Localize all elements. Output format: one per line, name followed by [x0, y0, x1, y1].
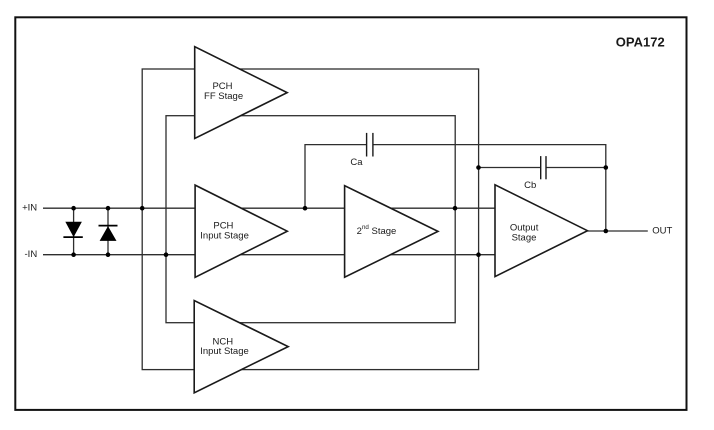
svg-text:Stage: Stage	[512, 232, 537, 243]
op-amp Output Stage	[495, 185, 588, 277]
svg-text:OUT: OUT	[652, 226, 672, 237]
port label -IN	[25, 249, 38, 260]
wire output	[588, 230, 648, 232]
capacitor Cb	[524, 156, 546, 191]
wire -IN rail	[43, 254, 495, 256]
junction dot inner loop/upper rail	[453, 206, 458, 211]
port label OUT	[652, 226, 672, 237]
junction dot +IN/Ca	[303, 206, 308, 211]
diode D2 (pointing up)	[99, 226, 118, 241]
junction dot output node	[604, 229, 609, 234]
junction dot -IN/D1	[71, 252, 76, 257]
svg-text:-IN: -IN	[25, 249, 38, 260]
junction dot +IN/outer loop	[140, 206, 145, 211]
wire diode branch 1	[73, 208, 75, 255]
wire outer loop (+IN net rectangle)	[142, 69, 478, 370]
svg-text:Input Stage: Input Stage	[200, 346, 249, 357]
junction dot -IN/D2	[106, 252, 111, 257]
svg-text:+IN: +IN	[22, 203, 37, 214]
junction dot Cb/outer loop	[476, 165, 481, 170]
diode D1 (pointing down)	[63, 222, 82, 237]
op-amp PCH FF Stage	[195, 47, 288, 139]
capacitor Ca	[350, 133, 372, 168]
wire +IN rail	[43, 207, 495, 209]
junction dot outer loop/lower rail	[476, 252, 481, 257]
svg-text:FF Stage: FF Stage	[204, 91, 243, 102]
svg-text:OPA172: OPA172	[616, 35, 665, 50]
svg-text:Ca: Ca	[350, 157, 363, 168]
wire diode branch 2	[107, 208, 109, 255]
junction dot +IN/D1	[71, 206, 76, 211]
port label +IN	[22, 203, 37, 214]
wire inner loop (-IN net rectangle)	[166, 116, 455, 323]
junction dot -IN/inner loop	[164, 252, 169, 257]
wire Cb left branch	[479, 167, 541, 169]
op-amp 2nd Stage	[345, 186, 438, 278]
svg-text:Input Stage: Input Stage	[200, 231, 249, 242]
wire Ca right branch	[373, 145, 606, 231]
junction dot +IN/D2	[106, 206, 111, 211]
op-amp NCH Input Stage	[194, 301, 288, 393]
wire Cb right branch	[546, 167, 606, 169]
device label OPA172	[616, 35, 665, 50]
wire Ca left branch	[305, 145, 367, 209]
junction dot Cb/Ca branch	[604, 165, 609, 170]
svg-text:Cb: Cb	[524, 180, 536, 191]
op-amp PCH Input Stage	[195, 185, 287, 277]
